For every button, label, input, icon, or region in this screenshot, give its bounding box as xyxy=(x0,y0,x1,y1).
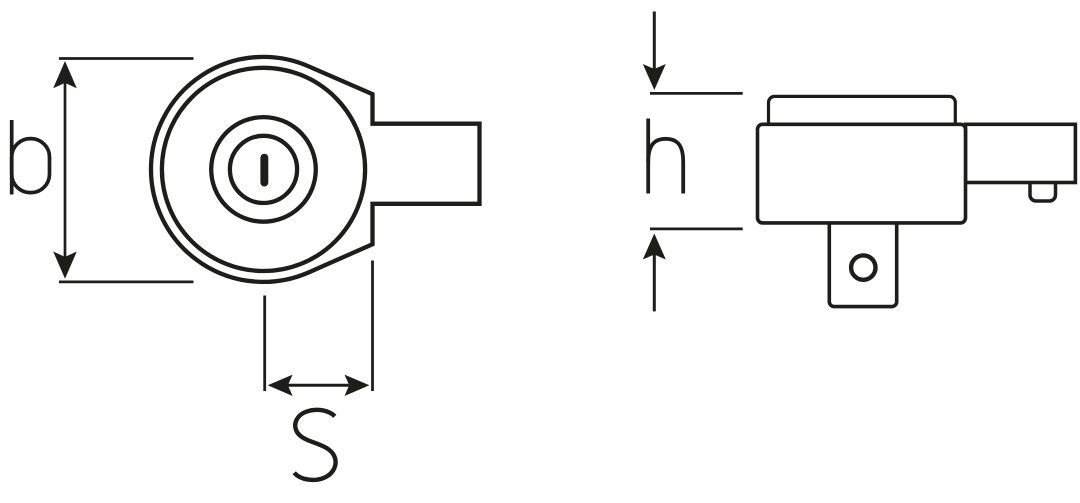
label b xyxy=(12,120,50,195)
side view: main body xyxy=(758,124,966,223)
side view: hole in tang xyxy=(851,255,875,279)
dimension S: left extension line xyxy=(263,296,266,392)
side view: right arm xyxy=(966,124,1076,182)
front view: center slot xyxy=(260,154,268,187)
dimension h: top arrow shaft xyxy=(653,12,656,70)
dimension b: top arrowhead xyxy=(53,61,77,88)
dimension S: right arrowhead xyxy=(345,375,370,396)
side view: nub under arm xyxy=(1030,172,1056,201)
dimension S: right extension line xyxy=(371,261,374,392)
front view: ratchet head outline with tang xyxy=(151,57,480,282)
dimension b: bottom arrowhead xyxy=(53,252,77,279)
front view: inner circle xyxy=(230,136,297,203)
dimension h: top arrowhead (pointing down) xyxy=(643,64,666,90)
dimension h: bottom arrowhead (pointing up) xyxy=(643,234,666,260)
dimension b: vertical dimension line xyxy=(64,82,67,257)
label h xyxy=(648,119,683,194)
dimension S: horizontal dimension line xyxy=(288,384,349,387)
side view: square drive tang xyxy=(829,210,896,307)
dimension h: bottom extension line xyxy=(650,228,743,231)
front view: inner ring circle xyxy=(162,68,365,271)
dimension S: left arrowhead xyxy=(268,375,293,396)
dimension h: bottom arrow shaft xyxy=(653,254,656,311)
dimension b: bottom extension line xyxy=(59,281,194,284)
label S xyxy=(294,410,335,480)
dimension b: top extension line xyxy=(59,57,194,60)
front view: middle circle xyxy=(211,117,316,222)
side view: top plate xyxy=(769,96,956,130)
dimension h: top extension line xyxy=(650,92,743,95)
